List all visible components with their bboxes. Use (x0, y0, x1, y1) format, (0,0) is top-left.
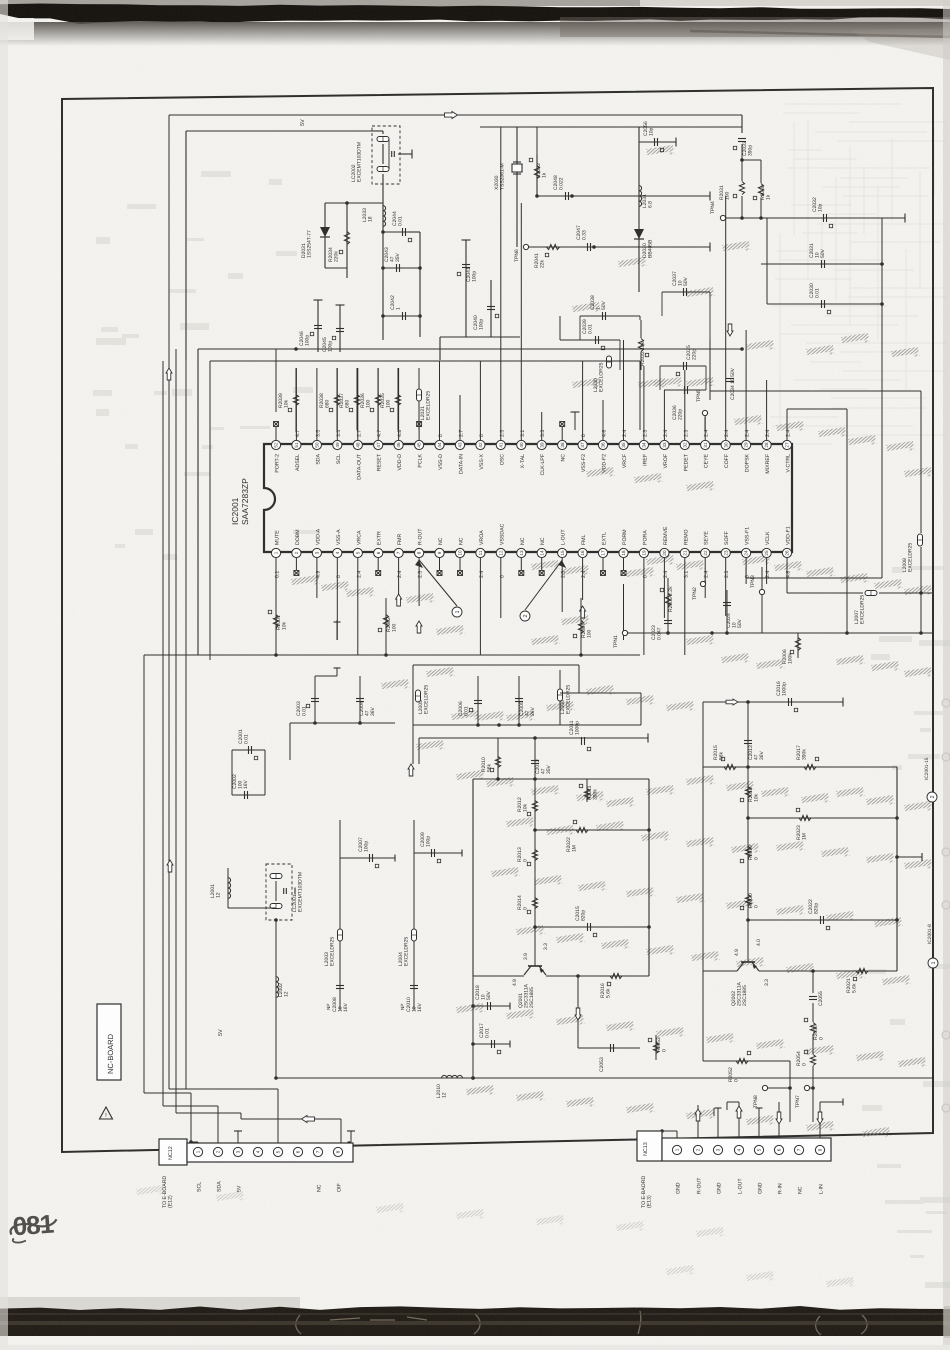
wire long rail under IC (198, 654, 640, 656)
resistor R2030 1k (760, 160, 762, 183)
IC2001 pin 1 MUTE (271, 548, 280, 557)
bead L2003 EXCELDR25 (339, 820, 341, 960)
wire amp R rail 2 (748, 919, 897, 921)
capacitor C2013 47 36V (747, 702, 749, 767)
IC2001 pin 50 SDA (312, 440, 321, 449)
test point TPN4 (720, 215, 725, 220)
connector NC12 pin 4 (253, 1147, 262, 1156)
capacitor C2016 1000p (703, 701, 843, 703)
signal arrow below VRCA (416, 621, 422, 633)
wire osc rail (480, 126, 742, 128)
capacitor C2040 100p (490, 280, 492, 337)
resistor R2014 0 (534, 880, 536, 927)
capacitor C2056 10p (639, 141, 676, 143)
wire V-CTRL loop (786, 409, 788, 428)
connector NC12 pin 8 (333, 1147, 342, 1156)
connector NC12 pin 5 (273, 1147, 282, 1156)
node 1 ref right (928, 958, 938, 968)
wire 5V drop to NC12 pin5 (277, 1089, 279, 1147)
capacitor C2046 100p (317, 300, 319, 352)
IC2001 pin 5 VRCA (353, 548, 362, 557)
NC-BOARD title box (97, 1004, 121, 1080)
node 2 ref right (927, 792, 937, 802)
signal arrow on top loop (445, 112, 458, 119)
capacitor C2045 100p (339, 305, 341, 352)
IC2001 pin 18 PORM (619, 548, 628, 557)
bead L2007 EXCELDR25 (865, 591, 877, 596)
IC2001 pin 42 VSS-X (476, 440, 485, 449)
resistor R2011 390k (586, 779, 588, 802)
connector NC13 pin 6 (774, 1145, 783, 1154)
connector NC13 pin 4 (734, 1145, 743, 1154)
filter LC2001 EXCEMT103DTM (dashed) (266, 864, 292, 920)
resistor R2039 10k (295, 368, 297, 430)
signal arrow left bus (166, 368, 172, 380)
bead L2005 EXCELDR25 (416, 690, 421, 702)
wire TPN4 rail (726, 217, 905, 219)
IC2001 pin 11 VROA (476, 548, 485, 557)
capacitor C2006 0.01 (477, 676, 479, 725)
signal arrow into amp (408, 764, 414, 776)
resistor R2034 220k (346, 203, 348, 268)
capacitor C2001 0.01 (232, 749, 265, 751)
ground stub above NC12 right (350, 1131, 352, 1143)
IC2001 pin 39 CLK-LPF (537, 440, 546, 449)
wire risers below IC pins (276, 584, 726, 655)
resistor R2037 680 (356, 368, 358, 430)
resistor R2033 1k (536, 155, 538, 196)
IC2001 pin 13 NC (517, 548, 526, 557)
resistor R2019 0 (747, 818, 749, 880)
capacitor C2038 1 50V (580, 315, 640, 317)
IC2001 pin 41 OSC (496, 440, 505, 449)
capacitor C2011 1000p (582, 737, 585, 745)
IC2001 pin 14 NC (537, 548, 546, 557)
resistor R2022 1M (576, 827, 588, 832)
IC2001 pin 52 PORT-2 (271, 440, 280, 449)
IC2001 pin 35 VRCF (619, 440, 628, 449)
wire amp internal rail 1 (535, 829, 649, 831)
test point TPN8 (762, 1085, 767, 1090)
signal arrow down C2053 (575, 1008, 581, 1020)
wire osc branch join (325, 267, 347, 269)
capacitor C2015 820p (588, 923, 591, 931)
connector NC13 pin 5 (754, 1145, 763, 1154)
scan artifact bottom band (0, 1297, 300, 1309)
capacitor C2035 220p (660, 365, 706, 367)
wire long bottom rail (276, 1077, 933, 1079)
connector NC13 pin 7 (794, 1145, 803, 1154)
inductor L2031 6.8 (638, 127, 640, 292)
capacitor C2037 10 50V (662, 291, 710, 293)
IC2001 pin 22 SEYE (701, 548, 710, 557)
signal arrow below FMR (396, 594, 402, 606)
inductor L2033 18 (382, 200, 384, 232)
warning triangle (100, 1107, 113, 1119)
connector NC12 pin 2 (213, 1147, 222, 1156)
IC2001 pin 17 EXTL (598, 548, 607, 557)
test point TPN6 (523, 244, 528, 249)
decorative ghost bleed (not labelled further) (770, 104, 947, 444)
IC2001 pin 6 EXTR (374, 548, 383, 557)
wire VDD-F1 return (786, 567, 788, 593)
IC2001 pin 51 ADSEL (292, 440, 301, 449)
wire cluster box (559, 316, 561, 340)
IC2001 pin 45 PCLK (415, 440, 424, 449)
wire left bus 3 (175, 349, 177, 1113)
test point TPN5 (704, 417, 706, 430)
inductor L2001 12 (227, 868, 229, 908)
capacitor C2043 47 35V (381, 266, 385, 270)
wire rail TPN1 (622, 630, 627, 635)
wire L2001 to LC2001 (228, 907, 276, 909)
connector NC12 pin 3 (233, 1147, 242, 1156)
wire amp R box (703, 766, 897, 768)
bead L2008 EXCELDR25 (918, 534, 923, 546)
IC2001 pin 16 FML (578, 548, 587, 557)
capacitor C2024 10 50V (726, 590, 728, 614)
IC2001 pin 25 VCLK (762, 548, 771, 557)
wire risers from IC top pins (276, 127, 767, 412)
resistor R2001 10k (275, 584, 277, 655)
signal arrow into amp R (726, 699, 738, 705)
capacitor C2005 47 36V (518, 676, 520, 725)
wire OIF loop w/ arrow (241, 1118, 341, 1120)
resistor R2035 100 (397, 368, 399, 430)
IC2001 pin 12 VSSDAC (496, 548, 505, 557)
transistor Q2001 2SC3311A/2SC1885 (534, 927, 536, 966)
capacitor C2004 47 36V (359, 676, 361, 723)
capacitor C2036 220p (664, 389, 706, 391)
IC2001 pin 4 VSS-A (333, 548, 342, 557)
resistor R2052 0 (703, 1060, 762, 1062)
connector NC13 pin 8 (815, 1145, 824, 1154)
capacitor C2002 100 16V (232, 794, 265, 796)
ground hatch marks (291, 145, 933, 1140)
signal arrow down (727, 324, 733, 336)
inductor L2002 12 (275, 920, 277, 1078)
resistor R2054 0 (810, 1055, 815, 1066)
capacitor C2041 100p (465, 240, 467, 337)
wire bus above IC (198, 348, 742, 350)
resistor R2010 56k (497, 738, 499, 779)
resistor R2006 100k (797, 633, 799, 658)
connector NC12 pin 7 (313, 1147, 322, 1156)
IC2001 pin 20 REMVE (660, 548, 669, 557)
IC2001 pin 23 SOFF (721, 548, 730, 557)
wire sub box top (413, 664, 579, 666)
wire under C2040 (440, 336, 520, 338)
capacitor C2055 (812, 971, 814, 993)
IC2001 pin 8 R-OUT (415, 548, 424, 557)
resistor R2031 100 (739, 182, 744, 195)
bead L2030 EXCELOR25 (607, 356, 612, 368)
capacitor C2042 1 (381, 314, 385, 318)
wire right column (880, 262, 884, 266)
IC2001 pin 30 COFF (721, 440, 730, 449)
varactor D2030 BB405B (634, 229, 644, 239)
signal arrow mid-left (167, 860, 173, 872)
capacitor C2012 47 35V (534, 738, 536, 779)
wire box right (560, 692, 641, 694)
ground stub (336, 620, 338, 640)
test point TPN3 (759, 589, 764, 594)
IC2001 pin 15 L-OUT (558, 548, 567, 557)
IC2001 pin 44 VSS-D (435, 440, 444, 449)
IC2001 pin 2 DOBM (292, 548, 301, 557)
page right edge shadow (943, 0, 950, 1345)
IC2001 pin 28 MIXREF (762, 440, 771, 449)
resistor R2018 10k (747, 767, 749, 818)
wire left bus 2 (162, 361, 164, 1106)
resistor R2036 100 (377, 368, 379, 430)
schematic border frame (62, 88, 933, 1152)
bead L2006 EXCELDR25 (558, 689, 563, 701)
capacitor C2022 820p (821, 916, 824, 924)
wire sub box bottom rail (413, 724, 641, 726)
capacitor C2008 10 16V NP (339, 960, 341, 1010)
resistor R2021 5.6k (856, 968, 868, 973)
test point TPN7 (804, 1085, 809, 1090)
connector NC12 pin 6 (293, 1147, 302, 1156)
capacitor C2023 0.047 (664, 621, 672, 624)
bead L2004 EXCELDR25 (413, 820, 415, 960)
connector NC12 (159, 1139, 187, 1165)
resistor R2053 0 (655, 1035, 657, 1060)
connector NC12 pin 1 (193, 1147, 202, 1156)
IC2001 pin 31 CEYE (701, 440, 710, 449)
IC2001 pin 21 REMO (680, 548, 689, 557)
resistor R2012 10k (534, 779, 536, 830)
IC2001 pin 24 VSS-F1 (742, 548, 751, 557)
wire stub T (574, 412, 576, 430)
node 2 circle (525, 560, 562, 610)
capacitor C2034 10 50V (709, 340, 711, 400)
capacitor C2018 10 50V (473, 1005, 510, 1007)
IC2001 pin 43 DATA-IN (455, 440, 464, 449)
capacitor C2032 10p (824, 214, 827, 222)
filter LC2002 EXCEMT103DTM (dashed) (372, 126, 400, 184)
capacitor C2033 390p (738, 139, 746, 142)
IC2001 pin 9 NC (435, 548, 444, 557)
wire top loop B (186, 130, 374, 132)
crystal X2030 TSS2061-M (513, 161, 521, 163)
ground stub right (897, 856, 922, 858)
resistor R2041 22k (529, 246, 710, 248)
capacitor C2039 0.01 (560, 339, 620, 341)
capacitor C2009 100p (414, 852, 462, 854)
signal arrow below FML (580, 606, 586, 618)
IC2001 pin 10 NC (455, 548, 464, 557)
IC2001 pin 37 VSS-F2 (578, 440, 587, 449)
op-amp / IC U IC2001 SAA7283ZP body (264, 444, 792, 552)
connector NC13 (637, 1131, 662, 1161)
wire VSS-F1 return (745, 567, 747, 578)
resistor R2023 1M (799, 815, 811, 820)
resistor R2020 0 (747, 880, 749, 920)
connector NC13 pin 3 (713, 1145, 722, 1154)
resistor R2004 100 (580, 598, 582, 655)
IC2001 pin 38 NC (558, 440, 567, 449)
IC2001 pin 27 V-CTRL (782, 440, 791, 449)
IC2001 pin 49 SCL (333, 440, 342, 449)
wire left bus 4 (185, 360, 187, 1089)
IC2001 pin 36 VDD-F2 (598, 440, 607, 449)
wire amp internal rail 2 (535, 926, 649, 928)
scan artifact top band (0, 0, 950, 60)
transistor Q2002 2SC3311A/2SC1885 (747, 920, 749, 962)
resistor R2017 390k (804, 764, 816, 769)
wire amp L box (473, 778, 649, 780)
resistor R2013 0 (534, 830, 536, 880)
diode D2031 1SS254T-77 (325, 202, 383, 204)
IC2001 pin 32 PEDET (680, 440, 689, 449)
wires above NC13 (676, 1131, 678, 1138)
capacitor C2017 0.01 (473, 1043, 510, 1045)
ghost pin circles right edge (942, 699, 950, 1112)
IC2001 pin 29 DOPSK (742, 440, 751, 449)
resistor R2032 10k (638, 339, 643, 352)
IC2001 pin 46 VDD-D (394, 440, 403, 449)
capacitor C2003 0.01 (314, 676, 316, 723)
wire rail mid (419, 737, 648, 739)
resistor R2005 2.2k (667, 578, 669, 633)
inductor L2010 12 (430, 1077, 444, 1079)
IC2001 pin 7 FMR (394, 548, 403, 557)
bead L2021 EXCELDR25 (418, 368, 420, 430)
IC2001 pin 33 VROF (660, 440, 669, 449)
wire joining rail (290, 722, 395, 724)
resistor R2015 56k (724, 764, 736, 769)
capacitor C2010 10 16V NP (413, 960, 415, 1010)
test point TPN2 (704, 580, 706, 584)
wire bus above IC 2 (210, 360, 640, 362)
capacitor C2053 (577, 976, 579, 1048)
node 1 circle (419, 560, 457, 606)
resistor R2002 100 (385, 598, 387, 655)
connector NC13 pin 1 (672, 1145, 681, 1154)
resistor R2056 0 (810, 1023, 815, 1034)
IC2001 pin 34 IREF (639, 440, 648, 449)
resistor R2038 680 (336, 368, 338, 430)
capacitor C2030 0.01 (767, 303, 882, 305)
wire amp R rail 1 (748, 817, 897, 819)
IC2001 pin 48 DATA-OUT (353, 440, 362, 449)
page number stamp 081 (9, 1208, 58, 1243)
IC2001 pin 26 VDD-F1 (782, 548, 791, 557)
IC2001 pin 19 PORA (639, 548, 648, 557)
capacitor C2047 0.33 (588, 243, 591, 251)
IC2001 pin 47 RESET (374, 440, 383, 449)
wire left bus 1 (143, 655, 145, 1093)
capacitor C2007 100p (340, 857, 395, 859)
capacitor C2048 0.022 (537, 195, 710, 197)
IC2001 pin 3 VDD-A (312, 548, 321, 557)
resistor R2016 5.6k (610, 973, 622, 978)
wire top loop A (169, 114, 742, 116)
ground stub above NC12 pin3 (237, 1131, 239, 1147)
capacitor C2031 10 50V (761, 263, 882, 265)
connector NC13 pin 2 (693, 1145, 702, 1154)
IC2001 pin 40 X-TAL (517, 440, 526, 449)
capacitor C2044 0.01 (382, 232, 384, 340)
